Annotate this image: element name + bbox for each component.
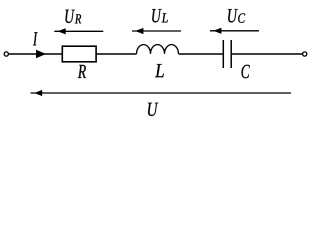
left terminal [4,52,8,56]
inductor L [137,45,179,54]
capacitor C left plate [222,40,224,68]
voltage arrow U_C [210,28,259,34]
wire: inductor to capacitor [179,53,223,55]
right terminal [303,52,307,56]
label I [33,32,38,45]
capacitor C right plate [230,40,232,68]
label U_L [152,9,168,22]
label C [242,65,250,78]
wire: resistor to inductor [96,53,136,55]
resistor R [62,46,96,62]
label U_C [228,9,245,23]
voltage arrow U_L [132,28,181,34]
current arrow I head [36,50,46,59]
wire: left terminal to resistor [9,53,63,55]
label L [155,64,164,77]
label U [148,103,158,116]
voltage arrow U_R [54,28,103,34]
wire: capacitor to right terminal [232,53,303,55]
label R [78,65,86,78]
label U_R [65,10,81,24]
total voltage arrow U [31,90,292,96]
